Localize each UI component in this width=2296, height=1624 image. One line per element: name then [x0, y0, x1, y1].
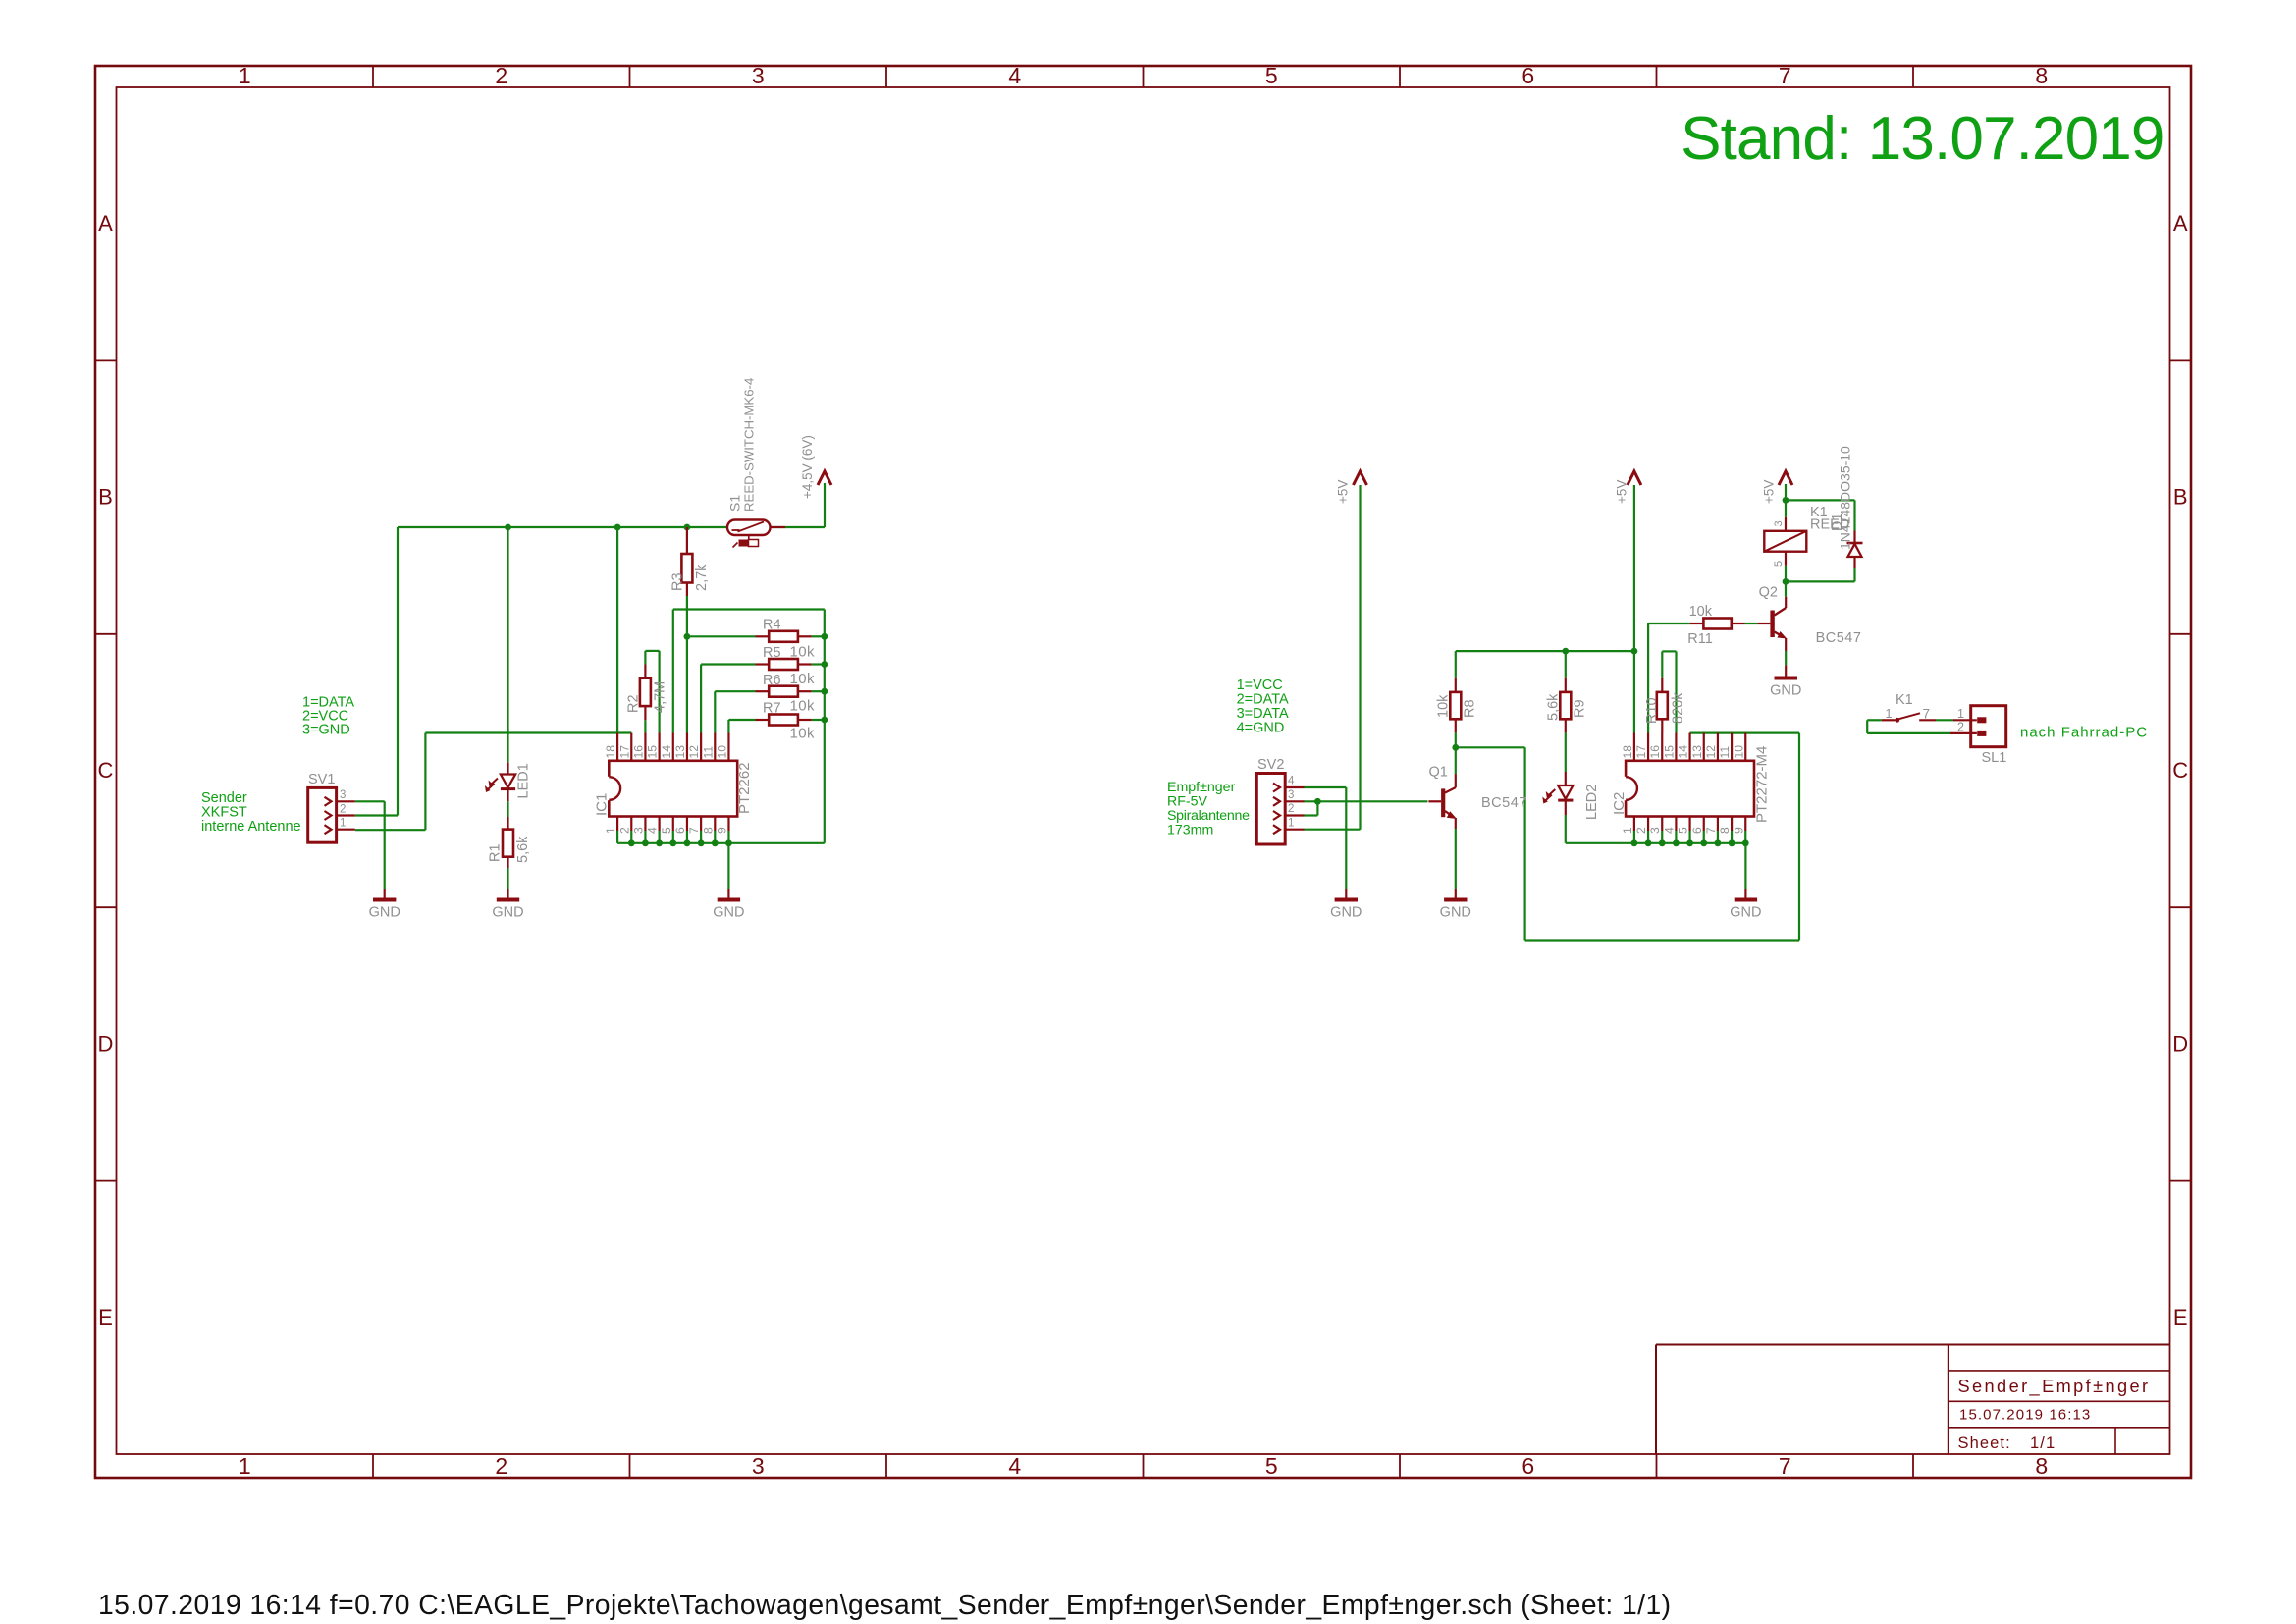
svg-text:1: 1: [239, 63, 251, 88]
svg-text:11: 11: [1718, 746, 1732, 759]
ground: [492, 889, 523, 921]
relay coil K1: [1764, 517, 1806, 566]
diode D1: [1847, 531, 1863, 568]
svg-text:1N4148DO35-10: 1N4148DO35-10: [1838, 446, 1853, 550]
svg-text:GND: GND: [492, 905, 523, 921]
IC U2 PT2272-M4 body: [1626, 733, 1754, 843]
svg-text:GND: GND: [1330, 905, 1362, 921]
svg-text:820k: 820k: [1671, 692, 1686, 724]
svg-text:3: 3: [1288, 789, 1294, 801]
svg-text:12: 12: [687, 745, 701, 759]
svg-text:3: 3: [752, 63, 765, 88]
svg-text:GND: GND: [713, 905, 744, 921]
svg-text:R6: R6: [763, 673, 781, 688]
ground: [1440, 889, 1471, 921]
svg-text:15: 15: [1662, 745, 1676, 759]
wire SV2 pin3 to Q1 base: [1305, 800, 1428, 802]
wire R7 net: [728, 720, 824, 733]
wire R1 to GND: [507, 868, 508, 889]
LED LED1: [485, 762, 515, 801]
connector SL1: [1950, 706, 2006, 747]
svg-text:9: 9: [715, 827, 728, 834]
wire relay to Q2 collector: [1785, 566, 1787, 597]
svg-text:+5V: +5V: [1762, 480, 1777, 504]
junction node bus-+5V: [1631, 648, 1638, 655]
frame row labels A-E: [98, 211, 2189, 1329]
junction node bus-R4: [821, 633, 828, 640]
wire IC1 GND drop: [727, 843, 729, 889]
relay contact K1: [1882, 713, 1936, 722]
svg-text:10k: 10k: [790, 697, 815, 714]
transistor Q2 BC547: [1757, 597, 1787, 651]
svg-text:R1: R1: [488, 843, 504, 862]
junction nodes IC2 bottom pins: [1631, 839, 1749, 846]
svg-text:4=GND: 4=GND: [1237, 721, 1285, 736]
svg-text:R7: R7: [763, 701, 781, 717]
wire K1 pin7 to SL1 pin1: [1936, 719, 1953, 721]
reed switch S1: [727, 520, 785, 548]
svg-text:3: 3: [752, 1453, 765, 1479]
title block frame: [1656, 1345, 2170, 1455]
svg-text:PT2272-M4: PT2272-M4: [1754, 746, 1771, 823]
svg-text:6: 6: [673, 827, 687, 834]
frame inner border: [117, 87, 2170, 1454]
svg-text:BC547: BC547: [1816, 630, 1862, 646]
wire SV2 pin1 to +5V: [1305, 485, 1361, 830]
wire LED2 to bus: [1565, 815, 1567, 843]
power +5V arrow: [1779, 471, 1792, 485]
svg-text:nach Fahrrad-PC: nach Fahrrad-PC: [2020, 725, 2148, 741]
svg-text:8: 8: [1718, 827, 1732, 834]
text sender annotation: [201, 790, 301, 835]
svg-text:7: 7: [1704, 827, 1718, 834]
svg-text:14: 14: [1677, 745, 1690, 759]
frame outer border: [95, 66, 2191, 1478]
svg-text:3: 3: [631, 827, 645, 834]
svg-text:R5: R5: [763, 645, 781, 661]
junction node VCC-R3: [684, 524, 691, 531]
svg-text:A: A: [98, 211, 113, 236]
svg-text:R3: R3: [670, 572, 686, 591]
wire +5V to relay K1: [1785, 484, 1787, 517]
wire R10 pin15 hook: [1662, 651, 1676, 732]
junction node VCC-IC1 pin18: [614, 524, 621, 531]
wire DIN loop to IC2 pin14: [1456, 733, 1799, 941]
svg-text:R9: R9: [1573, 699, 1588, 718]
ground Q2: [1770, 665, 1801, 698]
power +4,5V arrow: [818, 471, 831, 485]
svg-text:1: 1: [1886, 707, 1893, 721]
svg-text:12: 12: [1704, 745, 1718, 759]
svg-text:10k: 10k: [1436, 694, 1452, 718]
svg-text:LED2: LED2: [1584, 785, 1600, 820]
wire Q2 emitter to GND: [1785, 651, 1787, 665]
svg-text:3=GND: 3=GND: [302, 723, 350, 738]
junction node SV2 data: [1314, 798, 1321, 805]
junction nodes IC1 bottom pins: [628, 839, 732, 846]
text receiver annotation: [1167, 780, 1250, 839]
svg-text:18: 18: [1621, 745, 1634, 759]
wire LED1 branch: [507, 527, 508, 762]
IC2 pin numbers: [1621, 745, 1745, 834]
resistor R9: [1560, 678, 1571, 733]
wire SV2 pin4 to GND: [1305, 787, 1347, 889]
resistor R10: [1657, 678, 1668, 733]
junction node bus-R5: [821, 661, 828, 668]
resistor R5: [756, 659, 812, 670]
wire R9 to LED2: [1565, 732, 1567, 772]
svg-text:17: 17: [1634, 745, 1648, 759]
svg-text:GND: GND: [1730, 905, 1761, 921]
LED LED2: [1542, 772, 1573, 815]
svg-text:7: 7: [1779, 63, 1791, 88]
svg-text:5: 5: [1773, 561, 1785, 567]
wire SV2 pin2 jumper: [1305, 801, 1318, 815]
svg-text:8: 8: [2035, 63, 2048, 88]
wire Q1 emitter to GND: [1455, 829, 1457, 889]
junction node bus-R6: [821, 688, 828, 695]
wire SV1 pin3 to GND: [355, 801, 385, 889]
svg-text:10: 10: [1732, 745, 1745, 759]
svg-text:IC1: IC1: [594, 793, 611, 816]
wire R11 to Q2 base: [1745, 623, 1758, 624]
svg-text:C: C: [2172, 758, 2188, 783]
resistor R3: [681, 527, 692, 596]
wire VCC top rail: [355, 483, 825, 816]
wire IC2 pin17 to R11: [1648, 623, 1690, 733]
ground: [1730, 889, 1761, 921]
svg-text:2: 2: [1288, 803, 1294, 815]
wire R5 net: [701, 665, 825, 733]
svg-text:R11: R11: [1687, 631, 1713, 647]
svg-text:2: 2: [340, 803, 346, 815]
wire R2 bottom to pin16: [644, 720, 646, 732]
svg-text:C: C: [98, 758, 114, 783]
wire R4 right: [812, 635, 825, 637]
svg-text:8: 8: [2035, 1453, 2048, 1479]
svg-text:15: 15: [646, 745, 660, 759]
resistor R4: [756, 631, 812, 642]
svg-text:8: 8: [701, 827, 715, 834]
connector SV1: [308, 787, 355, 842]
svg-text:interne Antenne: interne Antenne: [201, 819, 301, 835]
svg-text:3: 3: [1773, 520, 1785, 526]
svg-text:+5V: +5V: [1615, 480, 1629, 504]
svg-text:GND: GND: [1770, 683, 1801, 699]
wire IC2 GND drop: [1744, 843, 1746, 889]
svg-text:Stand: 13.07.2019: Stand: 13.07.2019: [1681, 105, 2163, 173]
frame column labels 1-8: [239, 63, 2048, 1479]
power +5V arrow: [1354, 471, 1367, 485]
junction node bus-R9: [1562, 648, 1569, 655]
wire IC1 pin18 branch: [616, 527, 618, 733]
svg-text:Q1: Q1: [1429, 765, 1448, 781]
svg-text:18: 18: [604, 745, 617, 759]
resistor R1: [503, 817, 513, 868]
svg-text:5,6k: 5,6k: [515, 836, 531, 863]
svg-text:4: 4: [646, 827, 660, 834]
value REED-SWITCH-MK6-4: [742, 378, 757, 512]
svg-text:4: 4: [1008, 1453, 1021, 1479]
svg-text:A: A: [2173, 211, 2188, 236]
svg-text:4,7M: 4,7M: [653, 681, 668, 713]
wire IC2 bottom GND bus: [1566, 842, 1746, 844]
ground: [713, 889, 744, 921]
svg-text:SL1: SL1: [1982, 750, 2007, 766]
transistor Q1 BC547: [1428, 774, 1457, 829]
svg-text:2,7k: 2,7k: [694, 564, 710, 591]
wire R3 to IC1 pin13: [686, 596, 688, 733]
svg-text:1: 1: [604, 827, 617, 834]
svg-text:SV2: SV2: [1257, 757, 1284, 773]
wire SV1 pin1 to IC1 pin17 (DATA): [355, 733, 632, 831]
svg-text:E: E: [2173, 1305, 2188, 1329]
svg-text:15.07.2019 16:13: 15.07.2019 16:13: [1959, 1407, 2091, 1424]
svg-text:17: 17: [617, 745, 631, 759]
junction node R3-R4: [684, 633, 691, 640]
wire R2 pin15 hook: [645, 651, 659, 733]
power +5V arrow: [1628, 471, 1641, 485]
svg-text:16: 16: [1648, 745, 1662, 759]
wire R8 to Q1 collector: [1455, 732, 1457, 774]
svg-text:10: 10: [715, 745, 728, 759]
svg-text:+5V: +5V: [1336, 480, 1351, 504]
svg-text:5: 5: [1265, 63, 1278, 88]
wire IC1 bottom GND bus: [617, 842, 825, 844]
svg-text:2: 2: [1634, 827, 1648, 834]
svg-text:S1: S1: [727, 495, 743, 512]
resistor R6: [756, 686, 812, 697]
svg-text:13: 13: [673, 745, 687, 759]
svg-text:1: 1: [340, 818, 346, 830]
svg-text:Sheet:: Sheet:: [1958, 1435, 2011, 1452]
IC U1 PT2262 body: [609, 733, 737, 843]
junction node VCC-LED1: [505, 524, 511, 531]
svg-text:16: 16: [631, 745, 645, 759]
svg-text:10k: 10k: [790, 726, 815, 742]
svg-text:2: 2: [495, 63, 507, 88]
wire +5V arrow to IC2 pin18: [1633, 485, 1635, 733]
IC1 pin numbers: [604, 745, 728, 834]
svg-text:2: 2: [617, 827, 631, 834]
svg-text:173mm: 173mm: [1167, 823, 1213, 839]
svg-text:14: 14: [660, 745, 673, 759]
svg-text:2: 2: [1957, 721, 1964, 734]
junction node relay-D1-Q2: [1783, 578, 1789, 585]
svg-text:1/1: 1/1: [2030, 1435, 2056, 1452]
svg-text:13: 13: [1690, 745, 1704, 759]
svg-text:5: 5: [1265, 1453, 1278, 1479]
svg-text:R4: R4: [763, 618, 781, 633]
wire +5V bus to R8: [1456, 651, 1634, 678]
svg-text:1: 1: [1288, 817, 1294, 829]
wire R4 left: [687, 635, 756, 637]
svg-text:4: 4: [1662, 827, 1676, 834]
junction node bus-R7: [821, 717, 828, 724]
svg-text:BC547: BC547: [1481, 795, 1527, 811]
svg-text:6: 6: [1522, 63, 1534, 88]
svg-text:15.07.2019 16:14 f=0.70 C:\E: 15.07.2019 16:14 f=0.70 C:\EAGLE_Projekt…: [98, 1589, 1672, 1620]
svg-text:B: B: [98, 485, 113, 510]
svg-text:11: 11: [701, 746, 715, 759]
svg-text:Sender_Empf±nger: Sender_Empf±nger: [1958, 1377, 2151, 1397]
svg-text:5,6k: 5,6k: [1546, 693, 1562, 721]
svg-text:R8: R8: [1463, 699, 1478, 718]
wire LED1 to R1: [507, 801, 508, 817]
svg-text:IC2: IC2: [1611, 792, 1628, 815]
wire D1 cathode branch: [1786, 500, 1855, 530]
resistor R8: [1450, 678, 1461, 733]
svg-text:R2: R2: [626, 694, 642, 713]
svg-text:REED-SWITCH-MK6-4: REED-SWITCH-MK6-4: [742, 378, 757, 512]
svg-text:9: 9: [1732, 827, 1745, 834]
text SV1 pinout legend: [302, 695, 354, 738]
text SV2 pinout legend: [1237, 677, 1289, 736]
svg-text:3: 3: [1648, 827, 1662, 834]
wire R9 top: [1565, 651, 1567, 678]
resistor R11: [1690, 619, 1745, 629]
resistor R2: [640, 665, 651, 721]
svg-text:K1: K1: [1896, 692, 1913, 708]
junction node +5V-D1: [1783, 497, 1789, 504]
resistor R7: [756, 715, 812, 726]
ground: [369, 889, 400, 921]
ground: [1330, 889, 1362, 921]
svg-text:LED1: LED1: [516, 763, 532, 798]
svg-text:Q2: Q2: [1759, 585, 1778, 601]
junction node Q1 collector: [1452, 744, 1459, 751]
svg-text:D: D: [2172, 1031, 2188, 1056]
svg-text:10k: 10k: [1689, 604, 1713, 620]
svg-text:GND: GND: [1440, 905, 1471, 921]
frame column dividers: [373, 66, 1913, 1478]
svg-text:B: B: [2173, 485, 2188, 510]
svg-text:PT2262: PT2262: [736, 762, 753, 814]
wire K1 contact to SL1 pin2: [1867, 720, 1950, 733]
svg-text:5: 5: [660, 827, 673, 834]
svg-text:1: 1: [1957, 707, 1964, 721]
svg-text:4: 4: [1008, 63, 1021, 88]
svg-text:R10: R10: [1644, 697, 1660, 724]
svg-text:2: 2: [495, 1453, 507, 1479]
svg-text:SV1: SV1: [308, 772, 335, 787]
svg-text:1: 1: [239, 1453, 251, 1479]
wire D1 anode branch: [1786, 568, 1855, 581]
svg-text:3: 3: [340, 789, 346, 801]
wire R6 net: [715, 691, 825, 732]
title block sheet: [1958, 1435, 2056, 1452]
svg-text:10k: 10k: [790, 671, 815, 687]
svg-text:1: 1: [1621, 827, 1634, 834]
svg-text:E: E: [98, 1305, 113, 1329]
svg-text:7: 7: [1779, 1453, 1791, 1479]
connector SV2: [1256, 774, 1304, 845]
svg-text:6: 6: [1690, 827, 1704, 834]
wire IC1 pin14 to right bus: [673, 610, 825, 843]
svg-text:5: 5: [1677, 827, 1690, 834]
svg-text:6: 6: [1522, 1453, 1534, 1479]
frame row dividers: [95, 360, 2191, 1180]
svg-text:+4,5V (6V): +4,5V (6V): [800, 435, 815, 499]
svg-text:7: 7: [687, 827, 701, 834]
svg-text:D: D: [98, 1031, 114, 1056]
svg-text:GND: GND: [369, 905, 400, 921]
svg-text:7: 7: [1923, 707, 1931, 722]
svg-text:4: 4: [1288, 776, 1295, 787]
